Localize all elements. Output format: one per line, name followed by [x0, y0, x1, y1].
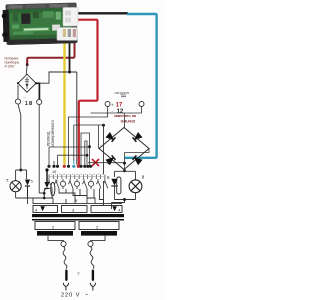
- svg-text:GBU410: GBU410: [121, 120, 136, 124]
- svg-text:1: 1: [25, 101, 28, 107]
- svg-text:17: 17: [116, 103, 123, 109]
- svg-text:220 V: 220 V: [61, 293, 80, 299]
- svg-text:5: 5: [78, 272, 80, 276]
- svg-text:+: +: [111, 102, 114, 107]
- svg-text:нагрузка: нагрузка: [115, 91, 129, 95]
- svg-text:измеряемого: измеряемого: [50, 119, 55, 146]
- svg-text:4-30V: 4-30V: [5, 65, 15, 69]
- svg-text:~: ~: [85, 293, 88, 299]
- svg-text:заменить на: заменить на: [114, 114, 137, 118]
- svg-text:10: 10: [52, 170, 56, 174]
- svg-text:8: 8: [29, 101, 32, 107]
